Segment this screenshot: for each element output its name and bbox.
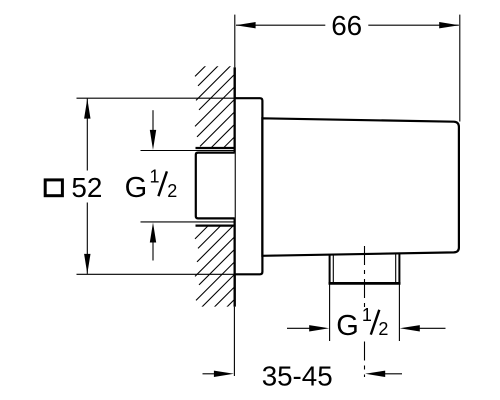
- svg-text:G: G: [125, 172, 148, 204]
- extension line below wall (35-45 dim): [233, 307, 235, 376]
- svg-text:66: 66: [331, 10, 362, 41]
- outlet thread: inner right line: [395, 253, 397, 283]
- dim G1/2 left: fraction slash: [158, 171, 167, 196]
- extension line above wall (66 dim): [234, 15, 236, 68]
- dim 52: arrowhead down: [84, 254, 90, 274]
- outlet thread: bottom end: [329, 282, 401, 285]
- svg-text:2: 2: [167, 181, 177, 201]
- wall face line: [233, 67, 235, 306]
- svg-text:1: 1: [362, 305, 372, 325]
- svg-text:2: 2: [378, 319, 388, 339]
- dim 35-45: arrow left: [203, 373, 216, 375]
- svg-text:G: G: [336, 310, 359, 342]
- outlet centerline (dash-dot): [364, 246, 366, 308]
- dim 66: arrowhead left: [236, 22, 256, 28]
- inlet thread body: [196, 153, 235, 219]
- dim 52: arrowhead up: [84, 99, 90, 119]
- dim G1/2 bottom: arrow right: [400, 325, 420, 331]
- svg-text:1: 1: [150, 167, 160, 187]
- outlet thread: outer right line: [398, 253, 400, 283]
- dim 52: dimension line: [86, 99, 88, 171]
- dim G1/2 bottom: extension line right: [398, 284, 400, 341]
- dim 52: extension line top: [77, 97, 235, 99]
- inlet thread: wall hole top edge: [196, 147, 235, 149]
- dim G1/2 left: arrow bottom: [150, 223, 156, 243]
- dim 66: extension line right: [459, 15, 461, 122]
- svg-text:35-45: 35-45: [262, 360, 333, 391]
- wall hatching: [195, 37, 235, 336]
- dim G1/2 bottom: arrow left: [287, 327, 310, 329]
- outlet thread: outer left line: [329, 254, 331, 283]
- dim 52: square symbol: [45, 180, 62, 196]
- dim 66: arrowhead right: [439, 22, 459, 28]
- flange plate: [235, 98, 263, 274]
- dim G1/2 bottom: fraction slash: [371, 310, 380, 335]
- svg-text:52: 52: [71, 172, 102, 203]
- inlet thread: crest line top + extension line (G 1/2 left dim): [141, 150, 235, 152]
- dim 66: dimension line: [236, 24, 325, 26]
- dim G1/2 left: arrow top: [152, 110, 154, 131]
- dim G1/2 bottom: extension line left: [329, 284, 331, 341]
- inlet thread: crest line bottom + extension line (G 1/2 left dim): [141, 221, 235, 223]
- outlet thread: inner left line: [332, 254, 334, 283]
- body (tapered box): [262, 118, 459, 256]
- dim 35-45: arrow right: [365, 371, 385, 377]
- inlet thread: wall hole bottom edge: [196, 225, 235, 227]
- dim 52: extension line bottom: [77, 273, 235, 275]
